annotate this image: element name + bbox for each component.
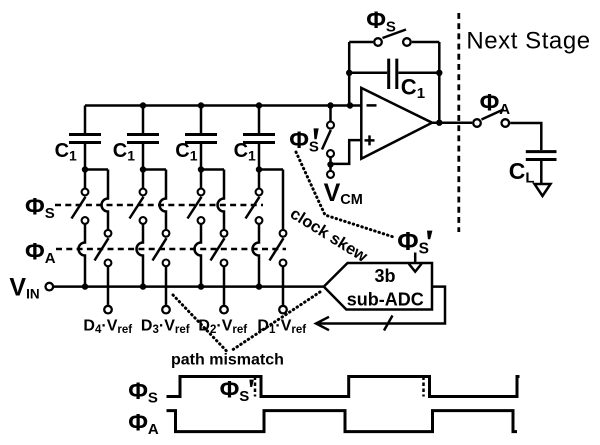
switch S3 phiS circles bbox=[198, 189, 205, 224]
svg-text:Next Stage: Next Stage bbox=[466, 27, 590, 54]
svg-text:sub-ADC: sub-ADC bbox=[347, 290, 424, 310]
switch S3 blade bbox=[188, 197, 202, 219]
node bus-cap3 bbox=[198, 102, 204, 108]
wire right vertical 1 with hop over phiS line bbox=[102, 170, 109, 230]
dotted pointer clock skew bbox=[296, 152, 395, 238]
svg-text:ΦA: ΦA bbox=[480, 89, 511, 118]
dotted pointer path mismatch right bbox=[230, 292, 320, 352]
terminal D2 bbox=[220, 306, 228, 314]
op-amp minus sign bbox=[367, 104, 377, 107]
switch A1 blade bbox=[95, 238, 109, 260]
switch phiS' blade bbox=[322, 130, 331, 150]
svg-text:ΦS: ΦS bbox=[220, 377, 250, 406]
node vin1 bbox=[82, 283, 88, 289]
wire right vertical 2 with hop over phiS line bbox=[160, 170, 167, 230]
switch A2 blade bbox=[153, 238, 167, 260]
svg-text:CL: CL bbox=[509, 158, 535, 186]
wire right vertical 1 to D4 terminal crossing VIN line bbox=[107, 267, 110, 305]
svg-text:D3·Vref: D3·Vref bbox=[141, 317, 190, 336]
svg-text:C1: C1 bbox=[401, 75, 425, 102]
wire left vertical 1 to VIN with hop over phiA line bbox=[79, 224, 86, 286]
wire right vertical 4 to D1 terminal crossing VIN line bbox=[282, 267, 285, 305]
wire right vertical 3 with hop over phiS line bbox=[218, 170, 224, 230]
wire to CL bbox=[510, 123, 541, 150]
wire op-amp output bbox=[432, 121, 472, 124]
svg-text:3b: 3b bbox=[374, 266, 395, 286]
node bus-cap4 bbox=[256, 102, 262, 108]
svg-text:clock skew: clock skew bbox=[287, 205, 371, 266]
switch phiS top blade bbox=[383, 30, 407, 39]
node cap1-bottom bbox=[82, 166, 88, 172]
dashed separator next stage bbox=[457, 13, 460, 232]
capacitor C1 d plates bbox=[243, 135, 275, 143]
node fb-left bbox=[346, 70, 352, 76]
node bus-phiSq bbox=[327, 102, 333, 108]
wire cap C1b bottom to node bbox=[142, 144, 145, 170]
wire VIN line to sub-ADC bbox=[54, 285, 324, 288]
waveform phiS' dashed falling edge 2 bbox=[422, 377, 425, 397]
wire feedback loop top right bbox=[412, 41, 440, 44]
wire left vertical 3 to VIN with hop over phiA line bbox=[195, 224, 201, 286]
wire cap C1c top vertical bbox=[200, 106, 203, 134]
node vin3 bbox=[198, 283, 204, 289]
waveform phiS' dashed falling edge 1 bbox=[254, 377, 257, 397]
wire phiS' switch to VCM node bbox=[329, 157, 332, 171]
node cap3-bottom bbox=[198, 166, 204, 172]
svg-text:D1·Vref: D1·Vref bbox=[257, 317, 306, 336]
node output bbox=[436, 120, 442, 126]
wire right vertical 2 to D3 terminal crossing VIN line bbox=[165, 267, 168, 305]
wire bus to phiS' switch bbox=[329, 106, 332, 122]
switch A1 phiA circles bbox=[105, 230, 112, 266]
svg-text:ΦS: ΦS bbox=[366, 7, 396, 36]
node cap2-bottom bbox=[140, 166, 146, 172]
svg-text:path mismatch: path mismatch bbox=[171, 352, 284, 369]
capacitor C1 c plates bbox=[185, 135, 217, 143]
switch A3 blade bbox=[211, 238, 225, 260]
wire plus input step bbox=[331, 140, 362, 164]
switch phiS' circles bbox=[327, 122, 334, 158]
wire cap C1a top vertical bbox=[84, 106, 87, 134]
capacitor C1 feedback plates bbox=[389, 59, 397, 89]
wire jog branch 3 bbox=[201, 168, 224, 171]
ground bbox=[535, 184, 551, 196]
capacitor CL plates bbox=[526, 152, 557, 160]
terminal D4 bbox=[104, 306, 112, 314]
terminal D1 bbox=[279, 306, 287, 314]
wire cap C1b top vertical bbox=[142, 106, 145, 134]
switch S4 phiS circles bbox=[256, 189, 263, 224]
node vcm-plus bbox=[327, 161, 333, 167]
svg-text:D4·Vref: D4·Vref bbox=[83, 317, 132, 336]
wire phiS' into sub-ADC bbox=[414, 253, 417, 263]
switch A4 blade bbox=[270, 238, 284, 260]
arrowhead feedback bbox=[316, 317, 329, 330]
op-amp U1 bbox=[361, 88, 432, 159]
waveform phiA bbox=[167, 411, 518, 432]
svg-text:ΦS: ΦS bbox=[128, 378, 158, 407]
svg-text:ΦS: ΦS bbox=[397, 226, 429, 257]
node cap4-bottom bbox=[256, 166, 262, 172]
capacitor C1 a plates bbox=[69, 135, 101, 143]
wire cap C1d top vertical bbox=[258, 106, 261, 134]
svg-text:ΦS: ΦS bbox=[25, 194, 55, 223]
wire top bus to op-amp minus input bbox=[85, 104, 362, 107]
switch S1 blade bbox=[72, 197, 86, 219]
switch S4 blade bbox=[246, 197, 260, 219]
bus slash on feedback wire bbox=[384, 316, 393, 331]
switch A4 phiA circles bbox=[280, 230, 287, 266]
terminal VIN bbox=[46, 283, 54, 291]
node vin4 bbox=[256, 283, 262, 289]
capacitor C1 b plates bbox=[127, 135, 159, 143]
switch phiA out blade bbox=[482, 109, 504, 119]
wire left vertical 1 above phiS switch bbox=[84, 170, 87, 189]
wire right vertical 4 bbox=[282, 170, 285, 230]
wire jog branch 1 bbox=[85, 168, 108, 171]
node bus-fb bbox=[347, 102, 353, 108]
wire from feedback cap right bbox=[398, 72, 439, 75]
arrowhead phiS' into sub-ADC bbox=[409, 264, 422, 272]
wire left vertical 2 to VIN with hop over phiA line bbox=[137, 224, 144, 286]
wire feedback loop right vertical bbox=[438, 42, 441, 123]
terminal D3 bbox=[162, 306, 170, 314]
switch A3 phiA circles bbox=[221, 230, 228, 266]
wire left vertical 2 above phiS switch bbox=[142, 170, 145, 189]
switch S2 phiS circles bbox=[140, 189, 147, 224]
svg-text:VIN: VIN bbox=[9, 273, 39, 301]
switch phiS top circles bbox=[374, 38, 411, 46]
prime mark sub-ADC phiS' bbox=[427, 231, 432, 240]
node fb-right bbox=[436, 70, 442, 76]
wire cap C1d bottom to node bbox=[258, 144, 261, 170]
wire feedback loop top left bbox=[349, 41, 373, 44]
waveform phiS bbox=[167, 377, 520, 397]
switch S2 blade bbox=[130, 197, 144, 219]
svg-text:ΦA: ΦA bbox=[128, 410, 159, 439]
wire cap C1c bottom to node bbox=[200, 144, 203, 170]
wire to feedback cap left bbox=[349, 72, 387, 75]
op-amp plus sign bbox=[365, 135, 375, 145]
wire right vertical 3 to D2 terminal crossing VIN line bbox=[223, 267, 226, 305]
wire jog branch 4 bbox=[259, 168, 283, 171]
wire left vertical 3 above phiS switch bbox=[200, 170, 203, 189]
switch phiA out circles bbox=[473, 119, 509, 127]
svg-text:ΦA: ΦA bbox=[25, 238, 56, 267]
dashed control line phiS bbox=[55, 204, 263, 207]
terminal VCM bbox=[327, 171, 334, 178]
wire feedback loop left vertical bbox=[348, 42, 351, 106]
wire sub-ADC output feedback bbox=[318, 287, 445, 324]
wire jog branch 2 bbox=[143, 168, 166, 171]
wire left vertical 4 to VIN with hop over phiA line bbox=[253, 224, 259, 286]
switch A2 phiA circles bbox=[163, 230, 170, 266]
wire left vertical 4 above phiS switch bbox=[258, 170, 261, 189]
sub-ADC block bbox=[324, 263, 432, 310]
wire CL to ground bbox=[540, 161, 543, 184]
dashed control line phiA bbox=[56, 248, 286, 251]
prime mark op-amp phiS' bbox=[314, 128, 319, 139]
svg-text:D2·Vref: D2·Vref bbox=[198, 317, 247, 336]
dotted pointer path mismatch left bbox=[173, 295, 227, 352]
node bus-cap2 bbox=[140, 102, 146, 108]
switch S1 phiS circles bbox=[82, 189, 89, 224]
node vin2 bbox=[140, 283, 146, 289]
wire cap C1a bottom to node bbox=[84, 144, 87, 170]
svg-text:VCM: VCM bbox=[324, 179, 363, 208]
prime mark waveform phiS' bbox=[249, 380, 254, 387]
